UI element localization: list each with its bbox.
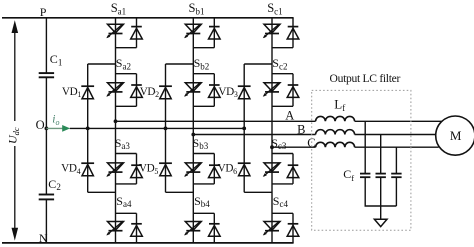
switch S_c4	[263, 221, 280, 235]
wire: phase C line to motor	[355, 146, 439, 148]
switch S_c2	[263, 82, 280, 96]
switch S_a3	[106, 163, 123, 177]
antiparallel diode of S_a1	[131, 27, 143, 39]
wire: C_f C to star bus	[395, 177, 397, 206]
wire: VD4 bottom connector	[88, 191, 116, 193]
wire: C1 to node O	[45, 77, 47, 194]
junction dot phase C output tap	[270, 145, 274, 149]
svg-text:O: O	[36, 118, 45, 132]
wire: VD3 top connector	[244, 63, 272, 65]
wire: S_b2 cell top connector	[193, 73, 214, 75]
wire: S_a3 cell bottom connector	[116, 183, 137, 185]
wire: S_a2 cell top connector	[116, 73, 137, 75]
junction dot VD3/VD6 on neutral rail	[242, 126, 246, 130]
clamp diode VD3	[238, 86, 251, 99]
switch S_a4	[106, 221, 123, 235]
wire: VD1 branch	[87, 64, 89, 128]
wire: neutral rail from O to clamp branches	[70, 127, 244, 129]
filter capacitor C_f phase C	[391, 174, 401, 178]
U_dc voltage arrow	[12, 20, 19, 240]
inductor L_f phase C	[316, 142, 355, 147]
junction dot phase B output tap	[191, 133, 195, 137]
wire: phase b leg vertical	[192, 18, 194, 243]
wire: VD2 top connector	[166, 63, 194, 65]
wire: S_c1 cell bottom connector	[272, 47, 293, 49]
antiparallel diode of S_b1	[209, 27, 221, 39]
wire: C_f drop phase A	[364, 121, 366, 173]
clamp diode VD2	[159, 86, 172, 99]
wire: negative dc rail N (bottom bus)	[2, 242, 294, 244]
ground symbol	[374, 219, 387, 226]
inductor L_f phase A	[316, 116, 355, 121]
wire: S_c2 cell top connector	[272, 73, 293, 75]
junction dot VD2/VD5 on neutral rail	[164, 126, 168, 130]
switch S_b2	[184, 82, 201, 96]
antiparallel diode of S_b3	[209, 165, 221, 177]
wire: S_c2 diode branch	[292, 74, 294, 107]
wire: S_b1 cell bottom connector	[193, 47, 214, 49]
filter capacitor C_f phase B	[376, 174, 386, 178]
wire: VD3 branch	[243, 64, 245, 128]
wire: C2 to N rail	[45, 199, 47, 243]
wire: S_b1 diode branch	[213, 18, 215, 48]
U_dc label	[6, 127, 22, 144]
antiparallel diode of S_b2	[209, 85, 221, 97]
wire: phase C line to filter	[272, 146, 316, 148]
wire: S_c1 diode branch	[292, 18, 294, 48]
wire: C_f A to star bus	[365, 177, 396, 206]
wire: S_c3 cell top connector	[272, 153, 293, 155]
antiparallel diode of S_a3	[131, 165, 143, 177]
wire: S_a3 diode branch	[136, 154, 138, 184]
wire: S_c2 cell bottom connector	[272, 105, 293, 107]
wire: S_c4 diode branch	[292, 213, 294, 243]
wire: S_b3 cell top connector	[193, 153, 214, 155]
wire: VD2 branch	[165, 64, 167, 128]
wire: VD1 top connector	[88, 63, 116, 65]
junction dot phase A output tap	[114, 119, 118, 123]
antiparallel diode of S_c2	[287, 85, 299, 97]
svg-text:Output LC filter: Output LC filter	[330, 72, 401, 85]
svg-text:P: P	[40, 5, 47, 19]
wire: S_a2 diode branch	[136, 74, 138, 107]
switch S_a1	[106, 24, 123, 38]
wire: VD4 branch	[87, 128, 89, 192]
wire: VD6 branch	[243, 128, 245, 192]
wire: S_c3 cell bottom connector	[272, 183, 293, 185]
inductor L_f phase B	[316, 130, 355, 135]
wire: S_a2 cell bottom connector	[116, 105, 137, 107]
switch S_c3	[263, 163, 280, 177]
switch S_b3	[184, 163, 201, 177]
wire: S_b4 diode branch	[213, 213, 215, 243]
clamp diode VD4	[81, 163, 94, 176]
wire: S_b2 diode branch	[213, 74, 215, 107]
clamp diode VD1	[81, 86, 94, 99]
wire: dc-link branch (P to C1)	[45, 18, 47, 73]
svg-text:A: A	[285, 109, 294, 123]
wire: VD6 bottom connector	[244, 191, 272, 193]
wire: S_b3 diode branch	[213, 154, 215, 184]
filter capacitor C_f phase A	[360, 174, 370, 178]
wire: S_c4 cell top connector	[272, 212, 293, 214]
antiparallel diode of S_a4	[131, 224, 143, 236]
wire: C_f drop phase C	[395, 147, 397, 173]
wire: S_a1 diode branch	[136, 18, 138, 48]
svg-text:B: B	[297, 122, 305, 136]
wire: S_a4 cell top connector	[116, 212, 137, 214]
wire: phase A line to motor	[355, 120, 442, 122]
wire: S_a4 diode branch	[136, 213, 138, 243]
antiparallel diode of S_c3	[287, 165, 299, 177]
wire: C_f B to ground	[380, 177, 382, 219]
wire: S_a1 cell bottom connector	[116, 47, 137, 49]
antiparallel diode of S_b4	[209, 224, 221, 236]
wire: C_f drop phase B	[380, 135, 382, 174]
svg-text:M: M	[450, 128, 462, 143]
wire: S_a3 cell top connector	[116, 153, 137, 155]
switch S_b1	[184, 24, 201, 38]
wire: S_c3 diode branch	[292, 154, 294, 184]
wire: phase A line to filter	[116, 120, 316, 122]
antiparallel diode of S_a2	[131, 85, 143, 97]
node O junction dot	[45, 126, 49, 130]
antiparallel diode of S_c4	[287, 224, 299, 236]
capacitor C1	[39, 73, 54, 77]
current arrow i_o	[46, 125, 70, 132]
wire: S_b3 cell bottom connector	[193, 183, 214, 185]
capacitor C2	[39, 195, 54, 200]
motor M	[436, 116, 474, 155]
switch S_a2	[106, 82, 123, 96]
output LC filter dashed box	[312, 90, 411, 230]
antiparallel diode of S_c1	[287, 27, 299, 39]
wire: VD5 bottom connector	[166, 191, 194, 193]
wire: phase c leg vertical	[271, 18, 273, 243]
clamp diode VD6	[238, 163, 251, 176]
wire: phase B line to motor	[355, 134, 436, 136]
wire: phase B line to filter	[193, 134, 315, 136]
clamp diode VD5	[159, 163, 172, 176]
switch S_c1	[263, 24, 280, 38]
wire: S_b4 cell top connector	[193, 212, 214, 214]
wire: phase a leg vertical	[115, 18, 117, 243]
switch S_b4	[184, 221, 201, 235]
wire: positive dc rail P (top bus)	[2, 17, 294, 19]
junction dot VD1/VD4 on neutral rail	[86, 126, 90, 130]
wire: VD5 branch	[165, 128, 167, 192]
wire: S_b2 cell bottom connector	[193, 105, 214, 107]
